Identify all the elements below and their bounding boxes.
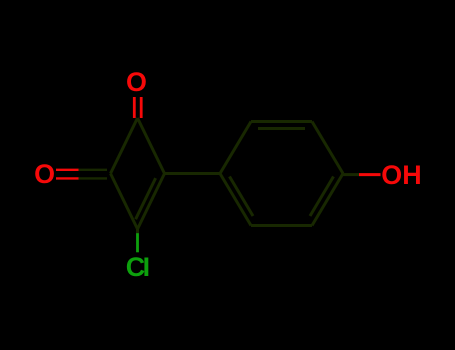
benzene edge bottom-left to ipso [220,174,251,226]
svg-text:O: O [126,67,147,97]
benzene edge ipso to top-left [220,122,251,174]
C2=O left double bond (red, oxygen side) [56,169,79,171]
C3-Cl bond carbon-side dark half [136,229,139,234]
C2=O left double bond carbon-side dark halves [78,169,107,171]
svg-text:O: O [34,159,55,189]
ring bond C1-C2 (top to left vertex) [111,118,138,174]
svg-text:OH: OH [381,160,421,190]
ring bond C1-C4 (top to right vertex) [138,118,165,174]
bond C4 to phenyl ipso carbon [165,172,221,175]
ring bond C2-C3 (left to bottom vertex) [111,174,138,230]
C3-Cl bond (green) [136,233,139,252]
O-H bond of hydroxyl (red) [359,173,381,176]
C1=O top double bond (red, oxygen side) [133,97,136,118]
benzene lower-left inner double line [230,177,254,217]
benzene lower-right inner double line [310,177,334,217]
ring bond C3-C4 (bottom to right vertex) [138,174,165,230]
benzene edge top-right to right [312,122,343,174]
ring double bond C3=C4 inner line [136,178,156,219]
benzene top edge [251,120,312,123]
C-OH bond carbon-side dark half [343,173,359,176]
svg-text:I: I [143,252,150,282]
benzene bottom edge [251,224,312,227]
benzene edge right to bottom-right [312,174,343,226]
benzene top inner double line [258,127,305,130]
